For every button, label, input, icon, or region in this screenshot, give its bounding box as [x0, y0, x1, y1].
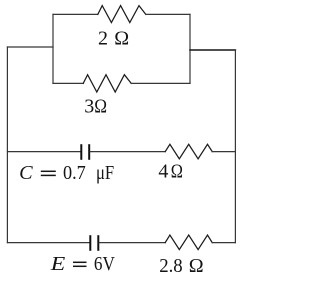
svg-text:C0.7μF: C0.7μF — [19, 162, 114, 184]
label 2 ohm — [98, 28, 129, 50]
wire middle right — [212, 151, 235, 153]
wire right connector — [190, 49, 235, 51]
resistor R3 4 ohm — [165, 144, 212, 159]
wire bottom right — [212, 242, 235, 244]
wire top branch left — [53, 13, 98, 15]
wire 3 ohm branch left — [53, 82, 83, 84]
wire middle left — [7, 151, 80, 153]
wire left rail — [6, 47, 8, 243]
battery E plates — [90, 236, 98, 250]
label 3 ohm — [84, 95, 107, 117]
label 2.8 ohm — [159, 255, 203, 277]
resistor R1 2 ohm — [98, 6, 146, 23]
wire left connector — [7, 46, 53, 48]
svg-text:3Ω: 3Ω — [84, 95, 107, 117]
capacitor C plates — [81, 145, 89, 159]
resistor R4 2.8 ohm — [165, 235, 212, 250]
label 4 ohm — [158, 161, 183, 183]
svg-text:4Ω: 4Ω — [158, 161, 183, 183]
wire bottom center — [99, 242, 165, 244]
wire middle center — [90, 151, 165, 153]
resistor R2 3 ohm — [83, 75, 131, 92]
node right junction vertical — [189, 14, 191, 83]
wire right rail — [234, 50, 236, 243]
wire 3 ohm branch right — [131, 82, 190, 84]
svg-text:2.8Ω: 2.8Ω — [159, 255, 203, 277]
node left junction vertical — [52, 14, 54, 83]
svg-text:E6V: E6V — [50, 253, 116, 275]
wire bottom left — [7, 242, 89, 244]
label E = 6V — [50, 253, 116, 275]
label C = 0.7 uF — [19, 162, 114, 184]
svg-text:2Ω: 2Ω — [98, 28, 129, 50]
wire top branch right — [146, 13, 190, 15]
